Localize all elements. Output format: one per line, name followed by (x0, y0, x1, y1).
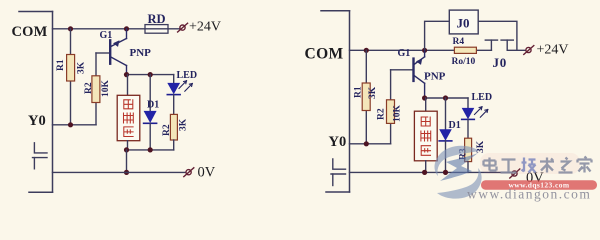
svg-text:Y0: Y0 (28, 113, 46, 129)
LED left (173, 75, 175, 83)
node junction emitter (124, 26, 129, 31)
solenoid glyphs right (421, 117, 431, 155)
svg-text:COM: COM (12, 24, 48, 40)
transistor G1 (PNP) right (414, 50, 425, 98)
diode D1 right (445, 98, 447, 129)
svg-text:Ro/10: Ro/10 (452, 57, 476, 67)
wire plc bottom stub (29, 191, 53, 193)
svg-text:D1: D1 (147, 100, 159, 111)
resistor R1 (3K) (70, 29, 72, 125)
svg-text:R2: R2 (377, 108, 387, 120)
svg-text:RD: RD (148, 12, 166, 26)
PLC bracket right (321, 11, 350, 192)
PLC bracket left (19, 12, 53, 193)
svg-text:LED: LED (472, 92, 493, 103)
node junction D1 top (148, 72, 153, 77)
wire load row top (127, 74, 174, 76)
svg-text:R2: R2 (84, 82, 94, 94)
wire Y0 line right (350, 143, 391, 145)
resistor R1 right (3K) (365, 50, 367, 144)
node junction Y0 (68, 122, 73, 127)
relay contact J0 (485, 40, 525, 50)
svg-text:+24V: +24V (537, 43, 569, 58)
svg-text:3K: 3K (179, 118, 189, 131)
wire to 0V (126, 150, 128, 173)
wire plc top stub (19, 11, 53, 13)
svg-text:D1: D1 (449, 120, 461, 131)
PLC output contact symbol right (331, 159, 346, 186)
LED arrows right (475, 107, 488, 117)
diode D1 left (149, 75, 151, 111)
resistor R4 (Ro/10) (454, 47, 476, 53)
fuse RD (145, 25, 168, 34)
watermark CJK text 电工技术之家 (approximated strokes) (484, 157, 592, 173)
watermark red band www.dqs123.com (481, 180, 597, 189)
wire plc rail (52, 12, 54, 193)
LED right (467, 98, 469, 108)
terminal 0V (184, 168, 194, 177)
svg-text:PNP: PNP (130, 47, 152, 59)
wire load row bottom (127, 149, 174, 151)
wire Y0 line (53, 124, 97, 126)
svg-text:10K: 10K (101, 80, 111, 98)
svg-text:R2: R2 (162, 124, 172, 136)
node junction D1 bottom right (443, 170, 448, 175)
node junction solenoid bottom right (422, 170, 427, 175)
node junction solenoid top right (422, 95, 427, 100)
node junction solenoid bottom (124, 147, 129, 152)
resistor R2 (10K) (95, 53, 97, 125)
node junction R1 top (68, 26, 73, 31)
resistor R2b (3K) under LED (170, 114, 177, 140)
wire 0V line right (350, 171, 512, 173)
node junction D1 top right (443, 95, 448, 100)
svg-text:+24V: +24V (189, 20, 221, 35)
watermark logo swirl (435, 146, 482, 199)
wire base (96, 52, 110, 54)
svg-text:LED: LED (177, 70, 198, 81)
terminal 0V right (510, 169, 520, 178)
svg-text:3K: 3K (368, 86, 378, 99)
node junction R1 top right (364, 48, 369, 53)
wire load row right (425, 97, 468, 99)
solenoid valve box right (425, 98, 427, 111)
watermark red tint behind CJK (480, 153, 580, 174)
relay coil J0 box (449, 10, 478, 34)
wire plc top stub right (321, 10, 350, 12)
svg-text:G1: G1 (398, 48, 411, 59)
svg-text:COM: COM (305, 46, 344, 63)
wire plc bottom stub right (326, 191, 350, 193)
node junction Y0 right (364, 141, 369, 146)
svg-text:PNP: PNP (424, 71, 446, 83)
node junction D1 bottom (148, 147, 153, 152)
svg-text:3K: 3K (77, 61, 87, 74)
transistor G1 (PNP) left (110, 29, 126, 75)
svg-text:www.diangon.com: www.diangon.com (467, 187, 591, 202)
svg-text:Y0: Y0 (329, 134, 347, 150)
svg-text:10K: 10K (393, 105, 403, 123)
LED arrows left (179, 81, 192, 91)
svg-text:R4: R4 (453, 37, 465, 47)
wire COM line right (350, 49, 492, 51)
relay coil J0 loop (425, 21, 517, 50)
wire COM line (53, 28, 180, 30)
node junction solenoid top (124, 72, 129, 77)
svg-text:0V: 0V (198, 165, 216, 181)
svg-text:R1: R1 (56, 59, 66, 71)
svg-text:G1: G1 (100, 30, 113, 41)
svg-text:J0: J0 (493, 55, 508, 70)
resistor R3 right (3K) (465, 138, 472, 161)
solenoid valve box left (127, 75, 129, 96)
wire base right (391, 69, 413, 71)
node junction emitter right (422, 48, 427, 53)
wire 0V line (53, 171, 186, 173)
solenoid glyphs left (124, 100, 134, 137)
svg-text:J0: J0 (457, 16, 470, 31)
wire plc rail right (349, 11, 351, 192)
terminal +24V right (524, 46, 534, 55)
resistor R2 right (10K) (390, 70, 392, 144)
terminal +24V (178, 23, 188, 32)
node junction 0V (124, 170, 129, 175)
svg-text:R1: R1 (354, 86, 364, 98)
PLC output contact symbol (33, 143, 48, 169)
